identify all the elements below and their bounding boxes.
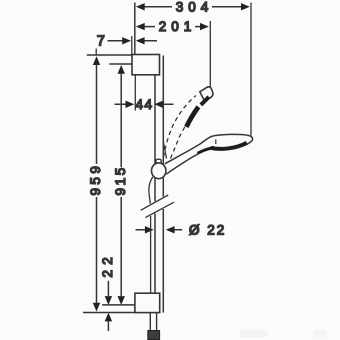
- holder knob: [152, 163, 166, 179]
- tick above 959 ext: [95, 49, 97, 56]
- svg-text:22: 22: [100, 252, 115, 277]
- svg-text:959: 959: [88, 163, 103, 196]
- dim 959 vertical line: [93, 56, 100, 311]
- svg-text:Ø 22: Ø 22: [189, 222, 226, 237]
- phantom shower dark face band lower: [186, 107, 198, 127]
- break mark diagonals: [141, 195, 169, 210]
- ext line B (from top dims to bracket): [134, 3, 136, 55]
- ext line 44 left: [134, 75, 136, 111]
- svg-text:7: 7: [97, 34, 105, 50]
- holder pin: [156, 159, 161, 163]
- hose below bottom bracket: [150, 313, 156, 331]
- bottom bracket: [135, 293, 160, 312]
- ext line 201 right: [209, 21, 211, 88]
- hose nut: [148, 331, 160, 340]
- svg-text:915: 915: [113, 165, 128, 195]
- dim 915 vertical line: [118, 65, 125, 305]
- hand shower handle-head junction dark wedge: [198, 147, 215, 153]
- top bracket: [132, 55, 160, 75]
- hand shower head dark band: [211, 143, 247, 149]
- phantom shower solid left outline: [163, 142, 166, 159]
- dim 304 line: [136, 3, 250, 10]
- bottom ref line L2 (959 end): [83, 312, 135, 314]
- ext line 304 right: [250, 3, 252, 136]
- hand shower handle outline: [165, 134, 253, 174]
- phantom shower dashed back edge: [164, 96, 197, 158]
- hose line: [149, 177, 153, 293]
- ext line 915 top: [109, 63, 131, 65]
- bottom ref line L1 (915/22 end): [102, 304, 135, 306]
- faint smudges bottom right: [240, 330, 268, 337]
- dim Ø22: [136, 226, 183, 233]
- phantom shower dashed front edge: [171, 113, 197, 159]
- dim 7 line: [108, 37, 158, 44]
- ext line A (left of 7 gap): [131, 36, 133, 54]
- svg-text:201: 201: [159, 19, 197, 34]
- phantom shower head cap: [200, 87, 213, 102]
- phantom shower dark face band upper: [201, 97, 209, 105]
- dim 201 line: [136, 23, 209, 30]
- wall bar right edge: [162, 56, 164, 313]
- wall bar left edge: [154, 75, 156, 293]
- hand shower head/handle separation tick: [215, 139, 217, 144]
- ext line 959 top: [87, 54, 132, 56]
- dim 22 vertical line: [105, 281, 112, 331]
- svg-text:304: 304: [176, 0, 214, 14]
- dim 44: [115, 101, 174, 108]
- svg-text:44: 44: [135, 97, 153, 112]
